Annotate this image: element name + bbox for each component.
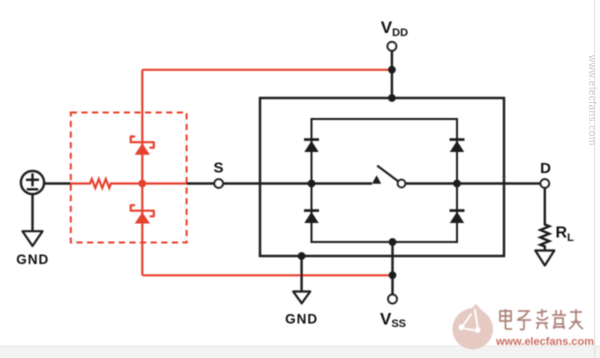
svg-text:www.elecfans.com: www.elecfans.com: [495, 336, 594, 348]
svg-text:GND: GND: [285, 311, 318, 326]
svg-text:D: D: [540, 160, 551, 177]
svg-text:S: S: [213, 159, 223, 176]
svg-text:www.elecfans.com: www.elecfans.com: [586, 54, 597, 146]
svg-text:GND: GND: [16, 252, 49, 267]
